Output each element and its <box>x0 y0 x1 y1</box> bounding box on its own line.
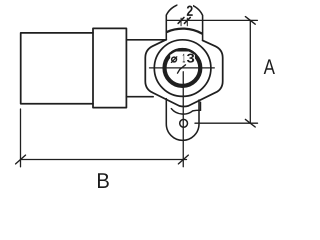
dim 2 tick left <box>178 17 184 23</box>
diameter leader line <box>178 65 186 73</box>
label 2 <box>187 6 193 16</box>
boss silhouette bottom line <box>126 96 153 98</box>
hex body <box>145 40 222 107</box>
ring outer edge sliver <box>170 49 194 53</box>
dim A top tick <box>245 17 255 25</box>
tab hole <box>180 119 188 127</box>
dim 2 tick right <box>184 17 190 23</box>
step arc below hex (smile) <box>171 109 200 114</box>
dim A line <box>249 20 251 123</box>
dim B left extension line <box>20 109 22 167</box>
diameter symbol slash <box>171 57 176 63</box>
bottom mounting tab <box>166 99 199 141</box>
dim A bottom tick <box>245 119 255 127</box>
text mask over top dome <box>177 2 193 16</box>
pipe body (left rectangle) <box>21 33 93 104</box>
dim 2 / A top extension line <box>166 19 257 21</box>
collar rectangle <box>93 28 126 107</box>
dim B line <box>21 159 187 161</box>
vertical centerline <box>182 72 184 167</box>
label A <box>264 59 275 74</box>
step riser right <box>200 102 202 110</box>
boss arc behind top tab <box>167 29 202 34</box>
dim 2 stub right <box>186 18 188 26</box>
hole leader / A bottom extension line <box>195 122 258 124</box>
boss silhouette top line <box>126 39 166 41</box>
outer boss circle <box>154 40 211 97</box>
dim B left tick <box>16 155 26 164</box>
label B <box>98 173 109 188</box>
bore thick ring <box>165 50 201 86</box>
dim B right tick <box>178 155 188 164</box>
dim 2 stub left <box>180 18 182 26</box>
diameter symbol circle <box>172 57 177 62</box>
label 13 <box>183 54 195 63</box>
top mounting tab <box>166 4 202 41</box>
horizontal centerline <box>150 67 215 69</box>
text mask over ring top <box>170 52 195 64</box>
